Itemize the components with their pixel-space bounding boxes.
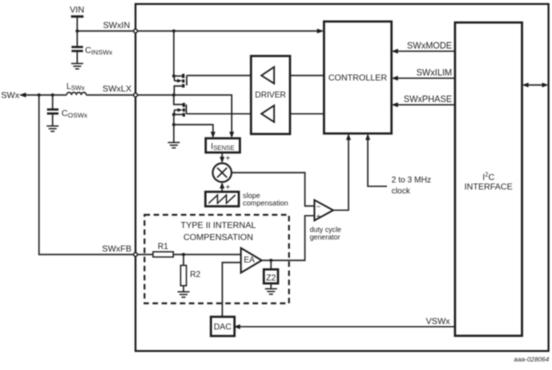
wire SWxIN rail to controller with arrow <box>136 29 325 34</box>
wire isense output to multiplier <box>221 153 223 159</box>
block DRIVER <box>251 56 290 134</box>
wire clock into controller <box>365 134 387 187</box>
arrow slope comp into multiplier bottom <box>220 182 225 192</box>
junction COSWx node <box>51 93 54 96</box>
transistor Q1 high-side FET <box>172 74 187 95</box>
svg-text:R1: R1 <box>158 242 169 251</box>
wire high-side gate to driver/controller <box>187 75 324 77</box>
wire SWx output with left arrow <box>19 93 67 98</box>
junction VIN/CINSWx node <box>76 29 79 32</box>
svg-text:clock: clock <box>392 186 412 195</box>
svg-text:+: + <box>226 183 231 192</box>
svg-text:VIN: VIN <box>70 5 84 15</box>
wire low-side source down to ground <box>173 115 175 143</box>
wire feedback from SWx node down to SWxFB pin <box>39 95 136 255</box>
buffer triangle top driver <box>261 67 274 84</box>
block DAC <box>211 317 235 336</box>
ground below FETs <box>168 143 180 148</box>
chip boundary <box>136 4 549 351</box>
wire SWxPHASE with arrow into controller <box>392 102 456 107</box>
wire DAC to EA input <box>222 263 241 317</box>
svg-text:TYPE II INTERNAL: TYPE II INTERNAL <box>181 220 256 230</box>
svg-text:DAC: DAC <box>214 322 232 332</box>
block ISENSE <box>206 138 240 152</box>
resistor R1 <box>153 252 173 257</box>
svg-text:SWxFB: SWxFB <box>102 244 132 254</box>
block I2C INTERFACE <box>455 23 522 336</box>
svg-text:I2C: I2C <box>482 172 494 183</box>
junction feedback node <box>37 93 40 96</box>
pin SWxIN <box>134 29 138 33</box>
wire rail down to high-side FET drain <box>173 31 175 76</box>
svg-text:SWxMODE: SWxMODE <box>407 40 452 50</box>
buffer triangle bottom driver <box>261 106 274 123</box>
svg-text:COMPENSATION: COMPENSATION <box>183 232 253 242</box>
wire SWxILIM with arrow into controller <box>392 76 456 81</box>
svg-text:R2: R2 <box>190 270 201 279</box>
wire SWxLX node to isense tap <box>174 95 232 133</box>
svg-text:compensation: compensation <box>243 199 288 208</box>
op-amp EA error amplifier <box>241 248 262 273</box>
wire sense node to isense left input <box>174 125 213 133</box>
svg-text:2 to 3 MHz: 2 to 3 MHz <box>392 176 432 185</box>
wire inductor to SWxLX pin <box>86 94 135 96</box>
wire SWxMODE with arrow into controller <box>392 49 456 54</box>
svg-text:SWx: SWx <box>1 90 20 100</box>
block CONTROLLER <box>324 22 392 134</box>
arrow into multiplier top <box>220 157 225 164</box>
wire comparator output up to controller <box>333 134 351 211</box>
svg-text:generator: generator <box>310 234 341 242</box>
capacitor CINSWx <box>72 31 84 64</box>
svg-text:aaa-028064: aaa-028064 <box>514 357 550 364</box>
wire low-side gate to driver/controller <box>186 113 324 115</box>
svg-text:DRIVER: DRIVER <box>255 90 286 99</box>
svg-text:+: + <box>316 211 321 220</box>
wire SWxLX pin to FET node <box>136 94 174 96</box>
wire EA output to comparator plus input <box>262 216 315 261</box>
svg-text:SWxILIM: SWxILIM <box>416 67 452 77</box>
junction EA output / Z2 <box>269 259 272 262</box>
svg-text:VSWx: VSWx <box>426 316 451 326</box>
transistor Q2 low-side FET <box>172 95 186 117</box>
junction SWxIN rail / high-side FET <box>172 29 175 32</box>
ground below R2 <box>178 292 190 297</box>
svg-text:+: + <box>226 154 231 163</box>
svg-text:EA: EA <box>244 256 255 265</box>
ground below CINSWx <box>71 64 83 69</box>
junction R1/R2 node <box>182 253 185 256</box>
capacitor COSWx <box>47 95 59 126</box>
svg-text:SWxIN: SWxIN <box>103 20 130 30</box>
VIN supply terminal <box>71 17 84 32</box>
pin SWxFB <box>134 253 138 257</box>
wire VIN node to SWxIN pin <box>77 30 135 32</box>
junction SWxLX node <box>172 93 175 96</box>
inductor LSWx <box>67 92 87 95</box>
svg-text:−: − <box>316 202 321 211</box>
pin SWxLX <box>134 93 138 97</box>
wire R1 to EA <box>173 254 241 256</box>
resistor R2 <box>181 255 187 292</box>
wire I2C bus double arrow <box>522 83 549 88</box>
svg-text:Z2: Z2 <box>266 272 276 282</box>
block slope compensation with sawtooth <box>205 192 238 207</box>
dashed box TYPE II INTERNAL COMPENSATION <box>145 215 290 303</box>
wire VSWx from I2C interface to DAC with arrow <box>234 324 455 329</box>
svg-text:SWxLX: SWxLX <box>103 84 132 94</box>
arrow into isense right input <box>229 132 234 139</box>
multiplier <box>213 163 232 182</box>
svg-text:CONTROLLER: CONTROLLER <box>328 73 387 83</box>
wire multiplier output to duty cycle comparator minus input <box>232 173 315 206</box>
junction sense node <box>172 123 175 126</box>
block Z2 <box>264 260 278 288</box>
wire SWxFB pin to R1 <box>136 254 154 256</box>
arrow into isense left input <box>211 132 216 139</box>
ground below Z2 <box>265 289 277 294</box>
svg-text:SWxPHASE: SWxPHASE <box>404 94 453 104</box>
op-amp duty cycle comparator <box>314 200 333 221</box>
ground below COSWx <box>47 126 59 131</box>
svg-text:INTERFACE: INTERFACE <box>464 182 512 192</box>
